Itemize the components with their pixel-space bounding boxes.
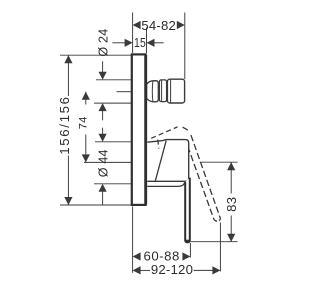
svg-text:Ø 24: Ø 24 — [95, 29, 110, 57]
svg-text:54-82: 54-82 — [141, 18, 176, 33]
svg-text:15: 15 — [134, 35, 146, 50]
svg-text:83: 83 — [224, 197, 239, 212]
svg-text:92-120: 92-120 — [151, 262, 193, 277]
svg-text:Ø 44: Ø 44 — [95, 149, 110, 177]
svg-text:74: 74 — [77, 116, 89, 129]
svg-text:60-88: 60-88 — [144, 248, 180, 263]
